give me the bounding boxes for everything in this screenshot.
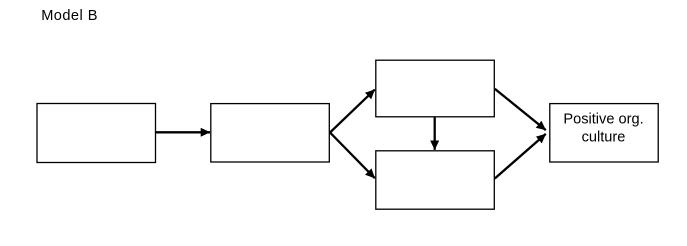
box 3 (top middle box) [376,60,495,117]
arrow box2 to box3 (diagonal up) [330,90,375,133]
svg-text:Positive org.: Positive org. [563,112,643,128]
arrow box1 to box2 [156,131,210,133]
box 2 (second box) [211,104,329,162]
box 4 (bottom middle box) [376,151,495,209]
arrow box4 to box5 (diagonal up-right) [495,134,546,179]
arrow box2 to box4 (diagonal down) [330,133,375,179]
arrow box3 to box5 (diagonal down-right) [495,89,546,130]
box 5 "Positive org. culture" [550,104,658,162]
box 1 (left input box) [37,104,156,163]
svg-text:Model B: Model B [41,8,98,24]
arrow box3 to box4 (vertical) [434,118,436,150]
svg-text:culture: culture [582,130,626,146]
